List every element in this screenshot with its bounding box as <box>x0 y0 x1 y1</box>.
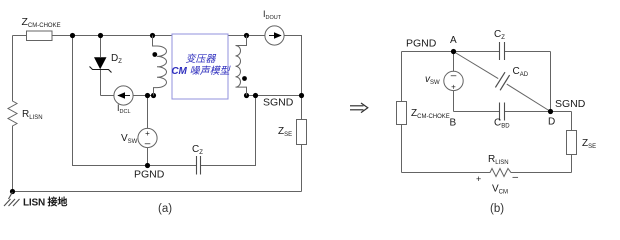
svg-text:PGND: PGND <box>406 38 437 50</box>
node A <box>451 49 456 54</box>
svg-text:ZCM-CHOKE: ZCM-CHOKE <box>22 16 61 29</box>
svg-text:ZSE: ZSE <box>582 138 596 150</box>
svg-text:B: B <box>450 118 457 129</box>
svg-text:+: + <box>145 129 150 138</box>
wire diagonal A-D <box>454 52 499 79</box>
svg-text:+: + <box>476 174 481 184</box>
resistor Zse (b) <box>567 131 577 155</box>
wire PGND branch vertical <box>73 36 197 166</box>
wire top rail (a) <box>13 35 173 37</box>
svg-text:D: D <box>548 117 555 128</box>
wire left rail (a) <box>12 36 14 100</box>
capacitor Cbd <box>500 103 505 121</box>
wire bottom rail (a) <box>13 191 302 193</box>
resistor Zcm-choke (b) <box>397 102 407 125</box>
polarity dot secondary <box>242 76 247 81</box>
wire PGND rail right of Cz <box>201 96 256 166</box>
svg-text:RLISN: RLISN <box>22 109 43 121</box>
svg-text:PGND: PGND <box>134 169 165 181</box>
resistor Rlisn (b) <box>488 169 514 177</box>
wire Idcl right <box>133 95 153 97</box>
resistor Zcm-choke (a) <box>27 31 53 41</box>
svg-text:A: A <box>450 35 457 46</box>
wire A to vsw <box>453 52 455 72</box>
svg-text:–: – <box>451 71 457 82</box>
svg-text:–: – <box>145 139 151 150</box>
svg-text:VSW: VSW <box>121 133 138 145</box>
svg-text:LISN 接地: LISN 接地 <box>23 196 67 209</box>
capacitor Cz (a) <box>197 156 201 175</box>
wire Zse branch (b) <box>571 112 573 131</box>
svg-text:VCM: VCM <box>492 184 508 196</box>
transformer secondary winding <box>236 36 247 96</box>
wire bottom rail (b) <box>402 172 489 174</box>
svg-text:(b): (b) <box>490 203 504 215</box>
wire Vsw branch <box>147 96 149 129</box>
svg-text:+: + <box>451 82 456 91</box>
wire Dz branch <box>100 36 102 58</box>
wire right rail top (b) <box>550 52 552 112</box>
svg-text:IDOUT: IDOUT <box>263 9 282 21</box>
current source Idcl <box>114 86 133 105</box>
capacitor Cad <box>495 72 509 90</box>
node dots Idcl rail <box>145 93 150 98</box>
transformer primary winding <box>153 36 167 96</box>
wire B-D rail <box>454 111 500 113</box>
wire Idcl left <box>101 95 115 97</box>
svg-text:SGND: SGND <box>555 98 586 110</box>
svg-text:SGND: SGND <box>263 97 294 109</box>
wire Idout left <box>228 35 265 37</box>
svg-text:CZ: CZ <box>192 144 203 156</box>
svg-text:vSW: vSW <box>425 74 440 86</box>
svg-text:ZSE: ZSE <box>278 126 292 138</box>
node dots SGND rail <box>244 93 249 98</box>
svg-text:CM 噪声模型: CM 噪声模型 <box>171 65 231 77</box>
wire left rail (b) <box>401 52 403 102</box>
source Vsw (a) <box>138 128 157 147</box>
diode Dz zener <box>94 57 107 69</box>
source vsw (b) <box>444 71 463 90</box>
svg-text:变压器: 变压器 <box>186 53 217 65</box>
svg-text:CBD: CBD <box>494 118 510 130</box>
svg-text:DZ: DZ <box>111 53 122 65</box>
wire SGND rail <box>247 95 302 97</box>
current source Idout <box>265 26 284 45</box>
wire right rail (a) <box>284 36 301 120</box>
resistor Rlisn (a) <box>8 99 17 128</box>
node PGND dot <box>145 163 150 168</box>
svg-text:RLISN: RLISN <box>488 154 509 166</box>
node dots top rail (a) <box>70 33 75 38</box>
capacitor Cz (b) <box>500 42 505 60</box>
svg-text:(a): (a) <box>158 203 172 215</box>
implies arrow <box>350 103 368 113</box>
svg-text:–: – <box>513 172 519 183</box>
ground LISN <box>10 189 15 194</box>
wire top rail (b) <box>402 51 500 53</box>
svg-text:CAD: CAD <box>513 66 529 78</box>
node D <box>548 109 553 114</box>
svg-text:ZCM-CHOKE: ZCM-CHOKE <box>411 108 450 120</box>
polarity dot primary <box>152 52 157 57</box>
svg-text:CZ: CZ <box>494 29 505 41</box>
transformer model box <box>172 34 228 99</box>
resistor Zse (a) <box>297 120 307 145</box>
